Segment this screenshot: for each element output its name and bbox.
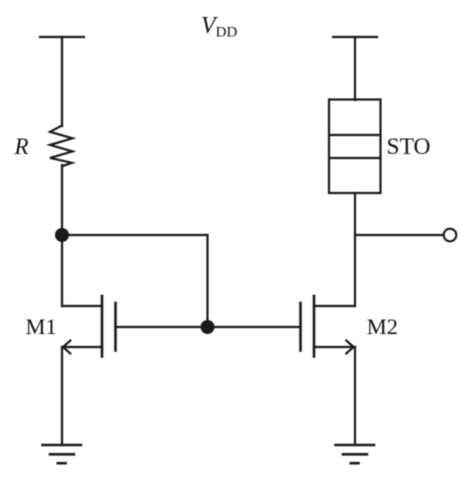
STO device box [329,100,381,194]
resistor R [50,126,73,167]
wire VDD rail to STO [354,37,356,100]
wire VDD rail to resistor R [61,37,63,126]
STO inner plate lower [329,157,381,159]
node A junction dot [55,228,69,242]
wire down to gate junction [206,235,208,327]
VDD rail (right) [333,36,377,38]
STO inner plate upper [329,134,381,136]
wire M1 source to ground [61,347,63,444]
ground (left) [43,445,82,463]
svg-text:R: R [14,134,29,159]
M2 drain wire [314,305,355,307]
ground (right) [336,445,375,463]
svg-text:STO: STO [387,134,431,160]
gate junction dot [201,320,215,334]
VDD rail (left) [40,36,84,38]
wire node A to gate column [62,234,208,236]
M2 source arrow [346,341,353,354]
svg-text:VDD: VDD [201,13,238,41]
transistor M1 channel plate [101,296,104,357]
svg-text:M2: M2 [367,314,398,339]
output wire [355,234,444,236]
M2 source wire [314,346,355,348]
transistor M2 gate plate [299,303,302,351]
wire STO to M2 drain [354,193,356,306]
M1 source arrow [63,341,70,354]
transistor M2 channel plate [313,296,316,357]
svg-text:M1: M1 [26,314,57,339]
M1 source wire [62,346,102,348]
wire resistor to node A [61,165,63,306]
wire M2 source to ground [354,347,356,444]
transistor M1 gate plate [114,303,117,351]
M1 drain wire [62,305,102,307]
output terminal circle [444,229,457,242]
gate wire M1 to M2 [116,326,301,328]
